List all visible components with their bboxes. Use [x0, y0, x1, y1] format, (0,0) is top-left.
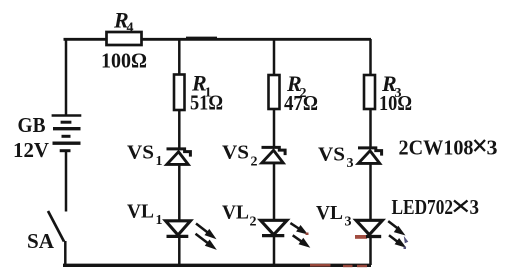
zener diode VS3 [358, 148, 382, 164]
svg-text:12V: 12V [13, 138, 49, 162]
resistor R3 [364, 75, 375, 109]
svg-text:VL: VL [222, 202, 249, 224]
svg-text:SA: SA [27, 229, 55, 253]
resistor R4 [107, 32, 142, 45]
label VL3 [316, 202, 352, 230]
wire branch 2 vertical segments [273, 39, 276, 265]
resistor R2 [269, 75, 280, 109]
svg-text:3: 3 [347, 156, 354, 171]
label VS3 [318, 144, 354, 172]
label VS1 [127, 142, 163, 170]
label 2CW108x3 [399, 136, 498, 160]
svg-text:GB: GB [18, 113, 46, 137]
svg-text:VL: VL [127, 201, 154, 223]
svg-text:VS: VS [222, 142, 249, 164]
svg-text:1: 1 [156, 154, 163, 169]
svg-text:100Ω: 100Ω [101, 49, 147, 73]
label LED702x3 [392, 195, 480, 219]
wire top rail [64, 38, 372, 40]
wire bottom rail [63, 264, 371, 268]
label R3 [381, 71, 402, 101]
svg-text:47Ω: 47Ω [284, 91, 318, 115]
svg-text:VL: VL [316, 202, 343, 224]
label R1 [191, 71, 212, 101]
wire branch 1 vertical segments [178, 39, 181, 265]
svg-text:1: 1 [156, 213, 163, 228]
wire left vertical from top rail to battery [65, 39, 68, 115]
LED VL3 [355, 220, 408, 249]
svg-text:2CW108: 2CW108 [399, 136, 474, 160]
svg-text:3: 3 [345, 215, 352, 230]
svg-text:VS: VS [318, 144, 345, 166]
switch SA blade [48, 211, 64, 242]
zener diode VS2 [262, 147, 286, 163]
wire switch to bottom rail [64, 241, 67, 265]
svg-text:51Ω: 51Ω [190, 91, 223, 115]
svg-text:LED702: LED702 [392, 195, 454, 219]
svg-text:VS: VS [127, 142, 154, 164]
label VL2 [222, 202, 257, 230]
battery GB [52, 116, 82, 151]
LED VL1 [166, 221, 217, 250]
label R4 [113, 8, 134, 36]
zener diode VS1 [167, 149, 191, 165]
wire branch 3 vertical segments [369, 39, 372, 265]
svg-text:3: 3 [470, 195, 480, 219]
svg-text:4: 4 [127, 21, 134, 36]
svg-text:2: 2 [250, 215, 257, 230]
label VL1 [127, 201, 163, 229]
label VS2 [222, 142, 258, 170]
LED VL2 [261, 220, 311, 247]
svg-text:10Ω: 10Ω [379, 91, 412, 115]
svg-text:3: 3 [487, 136, 498, 160]
resistor R1 [174, 75, 185, 111]
label R2 [286, 71, 307, 101]
wire battery to switch [65, 152, 68, 212]
svg-text:2: 2 [251, 155, 258, 170]
